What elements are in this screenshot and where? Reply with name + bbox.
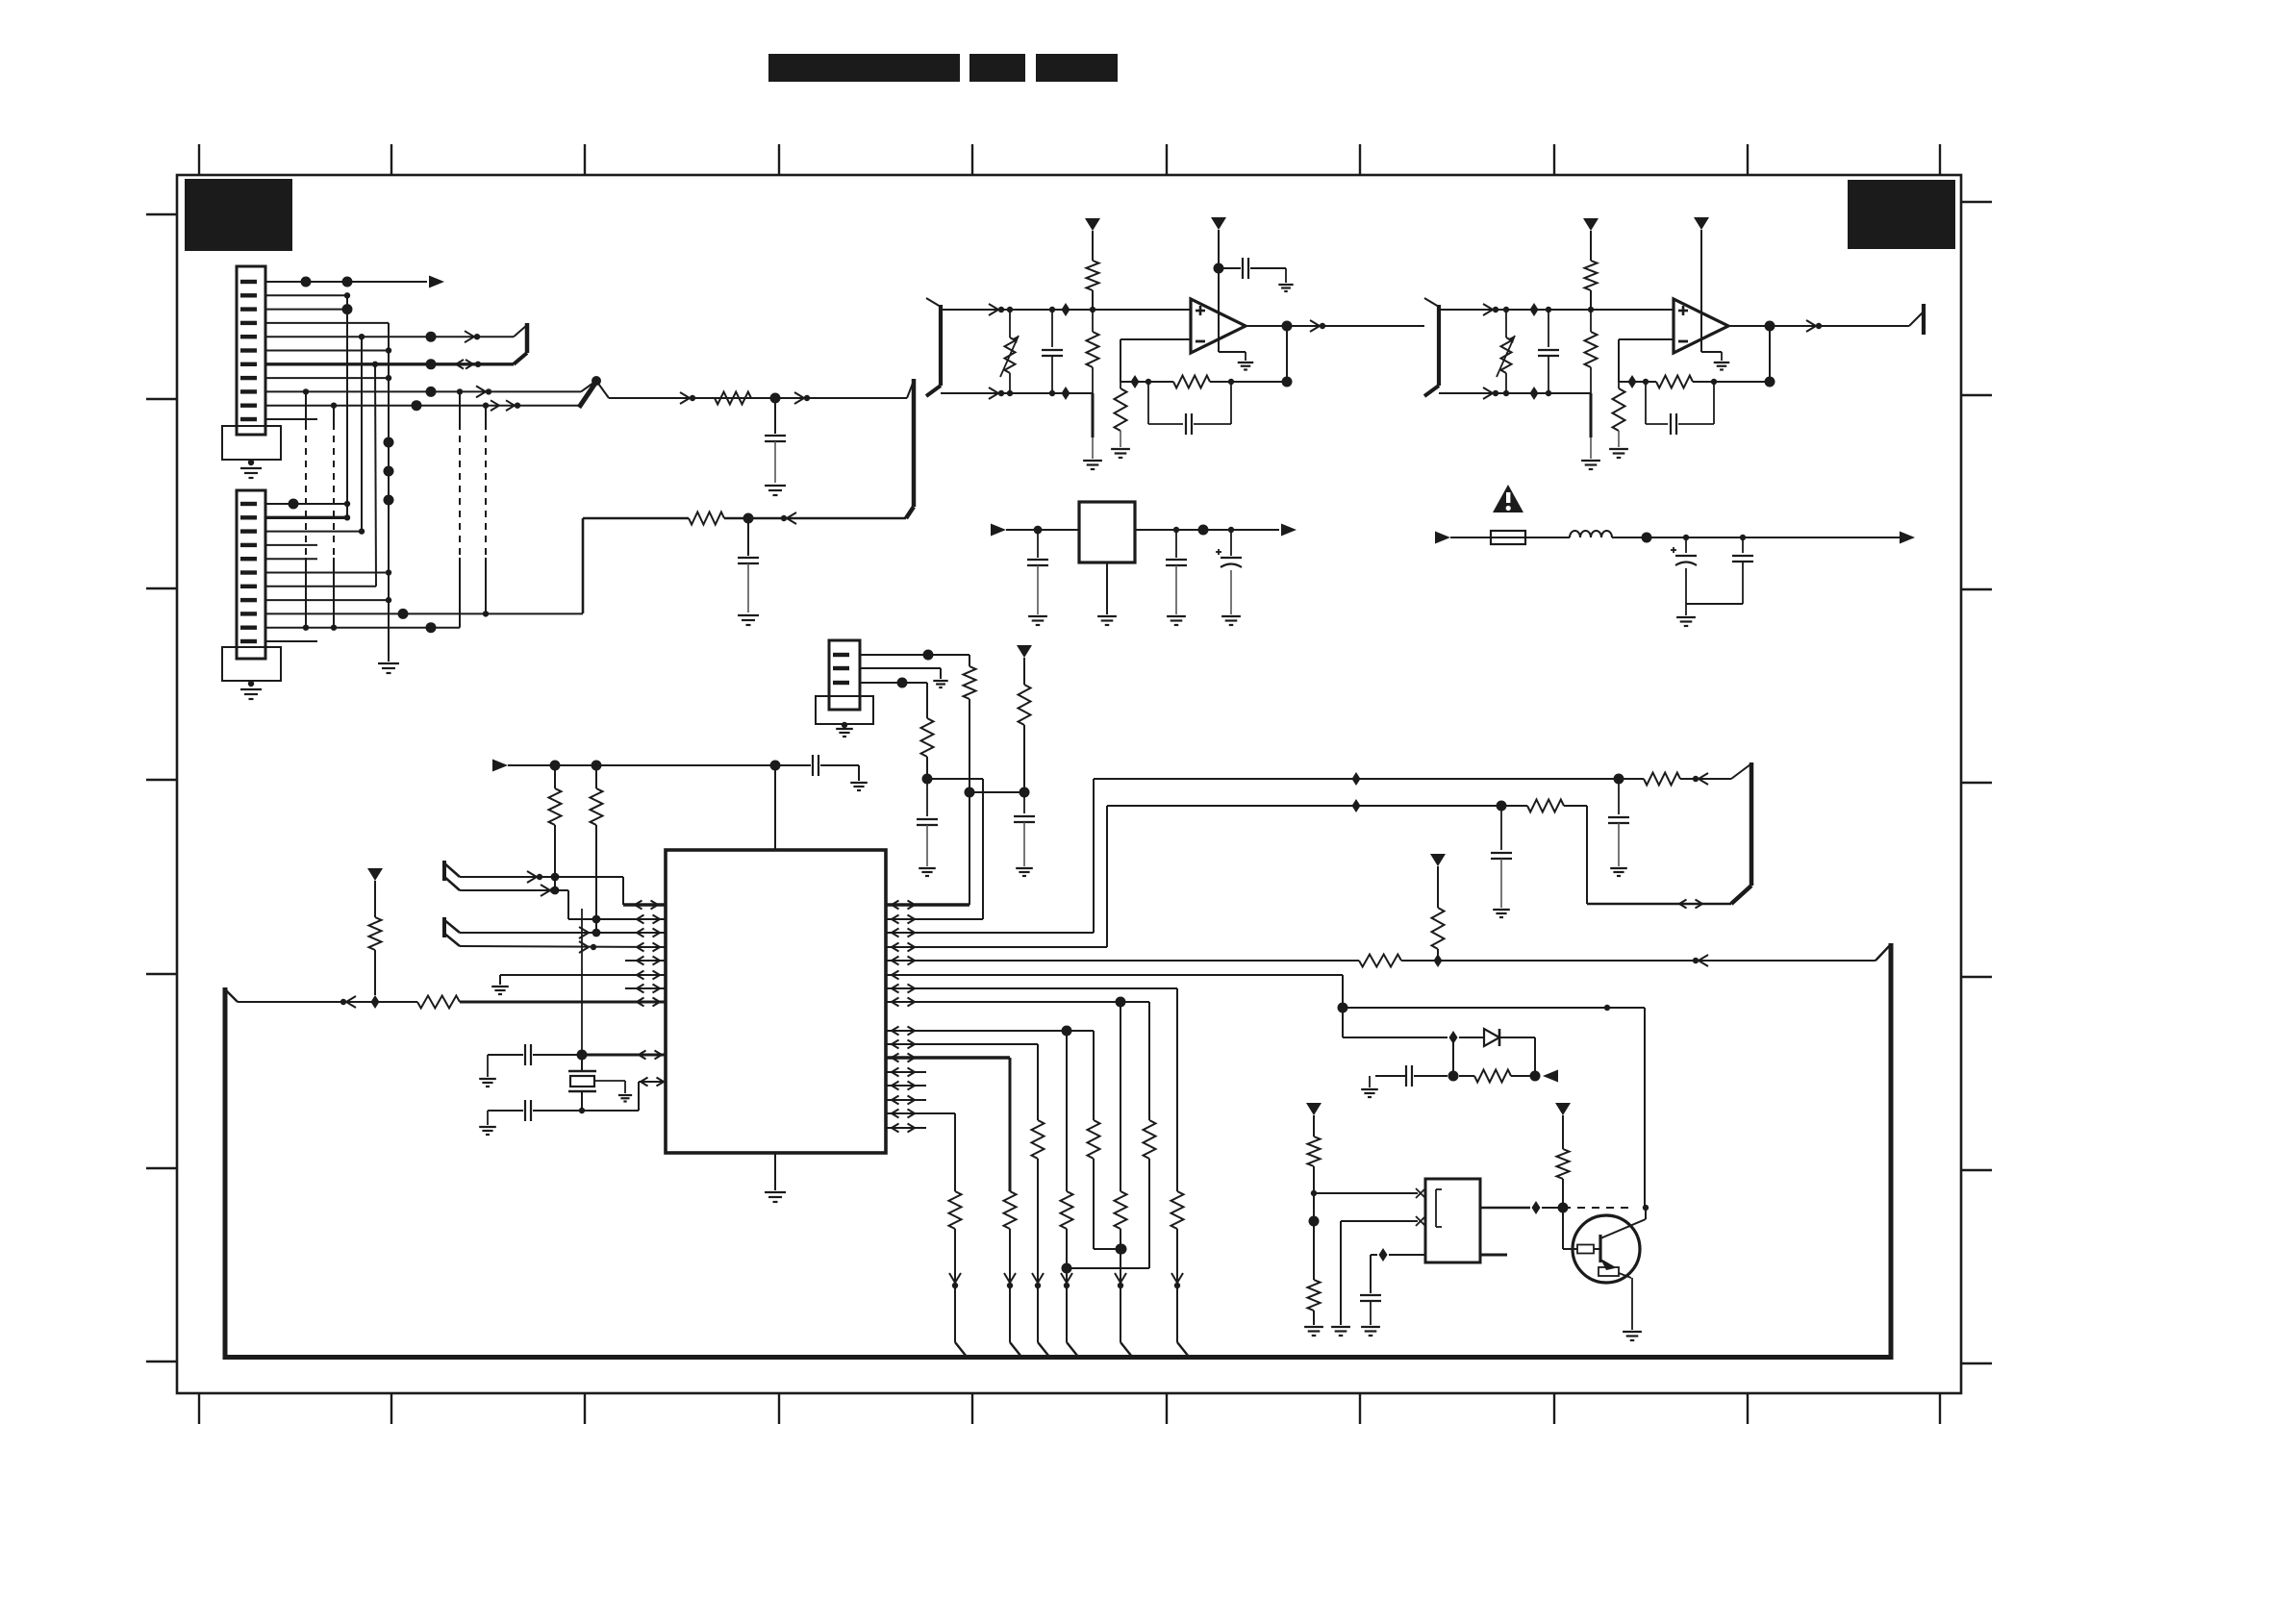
resistor R17 [1171,1191,1184,1342]
capacitor C18 [1491,806,1512,908]
wire supply [508,761,811,771]
resistor R25 [964,666,976,798]
wire U4 fb vert [1765,326,1775,387]
arrow supply in [492,760,508,772]
left border ticks [146,214,177,1362]
ground U3 [1238,362,1254,370]
wire U3 fb b [1210,379,1287,385]
ground R39 [1609,449,1628,458]
wire J3 pin2 [860,668,941,679]
bus bottom [223,1355,1894,1360]
wire J2 pin1 [265,499,350,510]
resistor R16 [1359,955,1401,967]
wire OA1 plus [941,303,1191,316]
ground C17 [1610,868,1627,876]
capacitor C30 [1360,1295,1381,1325]
connector J2 [237,490,265,659]
capacitor C11 [738,518,759,612]
wire row R6 [886,971,1348,1013]
bus exit wedge E1 [1731,762,1751,904]
ground J3 pin2 [933,681,947,687]
capacitor C21 [1166,530,1187,614]
resistor R28 [1644,773,1680,786]
wire reg gnd [1106,562,1108,614]
power V5 [1211,217,1226,352]
wire return [724,512,906,524]
ground C13 [479,1079,496,1087]
wire reg in [1006,526,1079,535]
arrow fuse in [1435,532,1450,544]
ground X1 [618,1095,632,1102]
ground filter [1676,617,1696,626]
wire row L6 [500,971,666,986]
wire J1 pin2 [265,292,350,298]
resistor R19 [1062,1120,1156,1274]
bus slant R18 [1120,1342,1132,1357]
bus right vertical [1889,943,1894,1360]
ground C15 [919,868,936,876]
wire row L1 [460,871,666,910]
ground C20 [1028,616,1047,625]
bus entry wedge A [443,861,460,890]
resistor R37 [1585,310,1598,393]
wire row R10 [886,1040,1038,1121]
vertical net V1 [346,295,348,517]
ground net V4 [378,663,399,673]
wire U3 vee [1219,352,1246,361]
node R10 out [751,392,907,404]
bus entry wedge OA1 [926,298,941,396]
wire U4 vee [1701,352,1722,361]
resistor R30 [1432,908,1445,961]
wire U3 out [1246,320,1424,332]
ground IC [765,1192,786,1202]
bus entry wedge OA2 [1424,298,1439,396]
bus stub wedge W2 [906,379,914,518]
trimmer RT1 [1000,310,1019,393]
wire net K2 [1343,1008,1484,1044]
connector J3 flag [816,696,873,728]
border frame [177,175,1961,1393]
wire U3 minus [1120,339,1191,382]
wire J2 pin7 [265,586,376,587]
ground R33 [1083,461,1102,469]
wire J2 pin6 [265,569,391,575]
bus slant R23 [1010,1342,1021,1357]
IC U1 [666,850,886,1153]
capacitor C27 [1148,382,1231,435]
wire row L5 [625,957,666,965]
wire row R5 b [1401,954,1876,967]
wire R33 gnd [1092,393,1095,459]
wire row L8 b [460,998,666,1007]
capacitor C29 [1646,382,1714,435]
wire D1 out [1499,1037,1535,1076]
wire J1 pin7 [265,359,514,369]
wire row R15 [886,1110,955,1192]
wire row L10 [582,1078,666,1112]
resistor R23 [1004,1191,1017,1342]
wire SCL link [969,787,1030,798]
bottom border ticks [199,1393,1940,1424]
wire J2 pin9 [265,609,583,619]
wire row R2 [886,779,983,924]
capacitor C23 electrolytic [1671,537,1697,604]
resistor R15 [369,917,382,995]
resistor R34 [1173,376,1210,388]
ground U2 [1097,616,1117,625]
capacitor C26 [1219,258,1286,283]
capacitor C25 [1042,310,1063,393]
power V8 [1306,1103,1322,1137]
resistor R27 [1019,685,1031,792]
bus entry wedge B [443,917,460,946]
ground C26 [1278,285,1293,291]
resistor R35 [1115,382,1127,447]
redacted title bar 1 [768,54,960,82]
bus slant R17 [1177,1342,1189,1357]
wire OA1 lower [941,387,1093,400]
resistor R11 [689,512,724,525]
arrow reg out [1281,524,1297,537]
wire row R7 [886,985,1177,1192]
ground J1 [240,468,262,478]
fuse F1 [1491,531,1525,544]
wire OA2 lower [1439,387,1591,400]
ground Q1 [1623,1332,1642,1340]
arrow filter out [1900,532,1915,544]
bus merge peak [579,376,601,408]
connector J3 [829,640,860,710]
wire base [1563,1208,1577,1249]
wire row L2 [460,885,666,924]
resistor R29 [1527,800,1564,812]
capacitor C20 [1027,530,1048,614]
bus wedge left [225,989,238,1002]
wire J2 pin5 [265,558,317,560]
vertical net V6 dashed [333,406,335,628]
power V4 [1085,218,1100,261]
ground C18 [1493,910,1510,917]
warning symbol [1493,485,1523,512]
wire J1 pin11 [265,418,317,420]
resistor R33 [1087,310,1099,393]
wire row R8 [886,997,1149,1192]
resistor R21 [1088,1120,1127,1255]
black label box top-left [185,179,292,251]
resistor R32 [1087,261,1099,310]
wire U4 fb b [1693,379,1770,385]
ground U4 [1714,362,1730,370]
wire J3 pin1 [860,650,969,667]
capacitor C12 [813,755,859,781]
wire row R5 [886,957,1359,965]
resistor R40 [1308,1137,1321,1280]
resistor R36 [1585,261,1598,310]
wire row R16 [886,1124,926,1133]
ground J2 [240,689,262,699]
wire return left [486,518,689,613]
resistor R12 [549,765,562,894]
wire J2 pin11 [265,640,317,642]
wire row R1 [886,792,969,910]
wire J1 pin5 [265,331,514,342]
transistor Q1 [1573,1208,1646,1330]
wire dashed link [1563,1205,1649,1211]
ground box in2 [1331,1327,1350,1336]
ground C16 [1016,868,1033,876]
capacitor C14 [488,1100,585,1125]
capacitor C19 [1370,1065,1448,1087]
resistor R31 [1459,1070,1541,1083]
wire row R4 [886,806,1107,952]
wire row L4 [460,941,666,953]
wire box in1 [1314,1188,1425,1198]
wire net H1 [1094,772,1644,786]
wire row R13 [886,1082,926,1090]
capacitor C22 electrolytic [1216,527,1242,614]
wire fuse in [1450,537,1491,538]
wire row L9 [577,909,667,1061]
resistor R13 [591,765,603,937]
wire box out1 [1480,1201,1569,1214]
wire net H1 b [1680,773,1731,785]
bus exit wedge E3 [1909,304,1924,335]
black label box top-right [1848,180,1955,249]
redacted title bar 2 [969,54,1025,82]
wire reg out [1135,525,1279,536]
wire row R14 [886,1096,926,1105]
wire U4 fb [1619,375,1656,388]
op-amp U4 [1674,299,1728,353]
wire SDA link [927,778,983,780]
ground row L6 [491,987,509,994]
wire J1 pin6 [265,347,391,353]
capacitor C17 [1608,779,1629,866]
wire J2 pin4 [265,544,317,546]
wire fuse out [1525,537,1570,538]
op-amp U3 [1191,299,1246,353]
wire box in2 [1341,1216,1425,1325]
regulator U2 [1079,502,1135,562]
wire J2 pin2 [265,514,350,520]
resistor R18 [1115,1191,1127,1342]
wire J1 pin8 [265,375,391,381]
bus slant R22 [1038,1342,1049,1357]
resistor R24 [949,1191,962,1342]
wire U4 out [1728,320,1909,332]
ground J3 [836,729,853,737]
diode D1 [1484,1029,1499,1046]
ground C10 [765,486,786,495]
ground K3 [1361,1089,1378,1097]
bus left vertical [223,987,228,1355]
wire row R9 [886,1026,1094,1192]
power V6 [1583,218,1599,261]
wire box out2 [1480,1254,1507,1257]
connector J1 [237,266,265,435]
wire box in3 [1371,1248,1425,1293]
ground C22 [1221,616,1241,625]
wire row R12 [886,1068,926,1077]
wire net H2 b [1564,806,1731,909]
inductor L1 [1570,531,1612,537]
wire R37 gnd [1590,393,1593,459]
resistor R39 [1613,382,1625,447]
wire row L3 [460,927,666,938]
vertical net V2 [361,337,363,531]
wire mux out [596,381,907,404]
resistor R42 [1557,1149,1570,1208]
vertical net V4 [384,323,394,662]
resistor R20 [1061,1191,1073,1342]
resistor R10 [715,392,751,405]
wire caps join [1686,604,1743,615]
power V3 [1430,854,1446,908]
wire OA2 plus [1439,303,1674,316]
wire J2 pin8 [265,597,391,603]
wire row L8 [238,995,417,1009]
wire IC VCC pin [774,765,776,850]
arrow out pin1 [429,276,444,288]
wire row L7 [625,985,666,993]
ground C14 [479,1127,496,1135]
wire U4 minus [1619,339,1674,382]
capacitor C16 [1014,792,1035,866]
capacitor C24 [1732,537,1753,604]
wire net H2 [1107,799,1527,812]
wire U3 fb vert [1282,326,1293,387]
wire J3 pin3 [860,678,927,719]
capacitor C28 [1538,310,1559,393]
wire J1 pin4 [265,322,389,324]
arrow reg in [991,524,1006,537]
power V9 [1555,1103,1571,1149]
vertical net V3 [375,364,376,587]
connector J1 shield flag [222,426,281,465]
wire row R3 [886,779,1094,937]
right border ticks [1961,202,1992,1363]
resistor R22 [1032,1120,1045,1342]
bus exit wedge E2 [1876,944,1891,961]
capacitor C13 [488,1044,582,1077]
vertical net V5 dashed [305,391,307,627]
resistor R14 [417,996,460,1009]
wire J2 pin3 [265,528,365,534]
resistor R38 [1656,376,1693,388]
wire row R11 [886,1054,1010,1192]
vertical net V7 dashed [459,391,461,627]
resistor R26 [921,718,934,785]
wire OA2 in [1385,325,1424,327]
ground C30 [1361,1327,1380,1336]
wire J1 pin10 [265,400,580,411]
driver box U5 [1425,1179,1480,1262]
bus slant R20 [1067,1342,1078,1357]
bus entry wedge W1 [514,323,527,364]
wire IC GND pin [774,1153,776,1190]
wire net K [1343,1005,1645,1208]
top border ticks [199,144,1940,175]
wire J1 pin9 [265,386,581,397]
arrow net K3 [1543,1070,1558,1083]
ground C11 [738,615,759,625]
wire U3 fb [1120,375,1173,388]
crystal X1 [568,1055,625,1111]
wire J1 pin1 [265,277,427,287]
ground C12 [850,783,868,790]
ground R37 [1581,461,1600,469]
wire filter [1612,533,1908,543]
capacitor C10 [765,398,786,483]
power V1 [367,868,383,917]
ground C21 [1167,616,1186,625]
redacted title bar 3 [1036,54,1118,82]
power V7 [1694,217,1709,352]
ground R35 [1111,449,1130,458]
wire J1 pin3 [265,304,353,314]
vertical net V8 dashed [485,406,487,614]
resistor R41 [1308,1280,1321,1325]
wire net K3 [1448,1037,1459,1082]
trimmer RT2 [1497,310,1515,393]
ground R41 [1304,1327,1323,1336]
bus slant R24 [955,1342,967,1357]
capacitor C15 [917,779,938,866]
wire J2 pin10 [265,622,460,633]
power V2 [1017,645,1032,685]
connector J2 shield flag [222,647,281,687]
